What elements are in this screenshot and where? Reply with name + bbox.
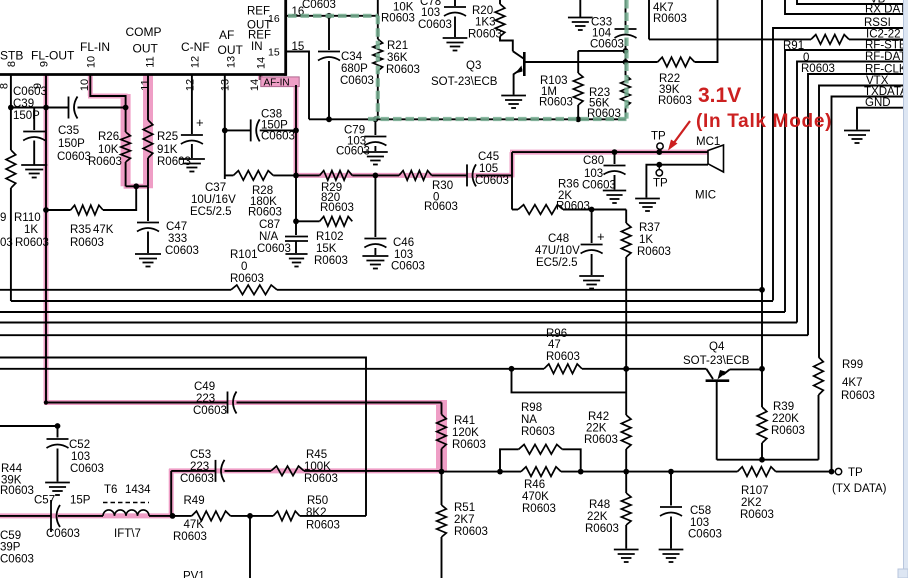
svg-text:R25: R25 [157,131,178,143]
svg-text:R36: R36 [558,179,579,191]
ground GND net [844,130,870,132]
wire VB line [797,0,908,4]
resistor R37 [625,210,627,224]
svg-text:Q4: Q4 [709,341,725,353]
resistor R36 [518,205,563,215]
resistor R39 [757,407,767,443]
svg-text:9: 9 [39,61,51,67]
svg-text:RX DATA: RX DATA [865,4,908,16]
resistor R42 [625,369,627,415]
resistor R46 [521,467,561,477]
capacitor C57 [50,500,52,532]
wire pin9 column [45,75,47,403]
svg-text:680P: 680P [341,63,368,75]
svg-text:C53: C53 [190,449,211,461]
capacitor C35 [68,97,70,119]
svg-text:N/A: N/A [259,231,279,243]
svg-text:RSSI: RSSI [864,17,891,29]
resistor R20 [499,0,501,4]
svg-text:10K: 10K [98,144,119,156]
svg-text:12: 12 [190,56,202,68]
svg-text:120K: 120K [452,427,479,439]
svg-text:C0603: C0603 [340,75,374,87]
capacitor C58 [670,472,672,506]
svg-text:4K7: 4K7 [842,377,862,389]
svg-text:R98: R98 [521,402,542,414]
green dashed box left edge [376,16,380,119]
svg-text:8K2: 8K2 [306,507,326,519]
svg-text:FL-IN: FL-IN [80,40,110,54]
svg-text:C0603: C0603 [688,529,722,541]
resistor R30 [399,171,432,181]
wire C33 to R103 [578,50,625,52]
svg-text:47: 47 [548,339,561,351]
svg-text:220K: 220K [772,413,799,425]
svg-text:+: + [196,115,204,130]
wire R39 U-wire [717,459,819,461]
highlight trace corner x512 [510,152,515,177]
svg-text:R0603: R0603 [248,207,282,219]
svg-text:R0603: R0603 [314,255,348,267]
svg-text:103: 103 [71,451,90,463]
highlight trace C57/T6 line [0,513,173,518]
svg-text:R35: R35 [70,224,91,236]
svg-text:C47: C47 [166,221,187,233]
svg-text:9: 9 [0,212,6,224]
highlight trace C49 line [44,400,444,405]
svg-text:R0603: R0603 [521,426,555,438]
svg-text:C0603: C0603 [70,463,104,475]
svg-text:C49: C49 [194,381,215,393]
wire C53 R45 line [171,470,215,472]
resistor R41 [437,414,447,448]
svg-text:100K: 100K [304,461,331,473]
svg-text:REF: REF [248,30,271,42]
svg-text:14: 14 [249,79,261,91]
svg-text:SOT-23\ECB: SOT-23\ECB [683,355,750,367]
capacitor C49 [227,392,229,414]
resistor R29 [296,174,320,176]
highlight trace AF-OUT line [294,173,513,178]
resistor R51 [441,472,443,505]
svg-text:36K: 36K [387,52,408,64]
svg-text:C34: C34 [341,51,363,63]
testpoint TP1 [657,143,663,149]
svg-text:MC1: MC1 [696,136,720,148]
svg-text:R0603: R0603 [88,156,122,168]
highlight trace MIC line [510,150,708,155]
svg-text:R99: R99 [842,359,863,371]
resistor R22 [658,57,695,67]
ground C47 [135,253,161,255]
wire pin14 stub [259,75,261,81]
svg-text:SOT-23\ECB: SOT-23\ECB [431,76,498,88]
svg-text:EC5/2.5: EC5/2.5 [536,257,578,269]
highlight trace pin11 column [143,75,153,189]
capacitor C78 [454,0,456,6]
svg-text:GND: GND [865,97,891,109]
ground C37 [179,158,205,160]
wire bus line7 Q4 base net [0,368,544,370]
highlight trace pin9/FL-OUT column [44,75,49,404]
svg-text:C0603: C0603 [180,473,214,485]
svg-text:REF: REF [247,6,270,18]
highlight trace AF-IN column [294,85,299,175]
svg-text:39P: 39P [0,542,21,554]
svg-text:FL-OUT: FL-OUT [31,49,75,63]
svg-text:R50: R50 [307,495,328,507]
highlight trace R26-R25 bottom [124,184,148,189]
svg-text:R110: R110 [14,212,41,224]
resistor R49 [192,511,231,521]
resistor R48 [625,472,627,493]
svg-text:R46: R46 [524,479,545,491]
svg-text:C87: C87 [259,219,280,231]
resistor R102 [296,220,320,222]
svg-text:OUT: OUT [218,43,244,57]
ground C39 [21,164,47,166]
svg-text:223: 223 [196,393,215,405]
resistor R25 [143,120,153,158]
svg-text:103: 103 [690,517,709,529]
svg-text:R26: R26 [98,131,119,143]
svg-text:2K2: 2K2 [741,497,761,509]
resistor R99 [814,357,824,395]
svg-text:C59: C59 [0,530,21,542]
window edge strip [904,0,908,578]
svg-text:150P: 150P [58,138,85,150]
svg-text:R0603: R0603 [304,473,338,485]
ground MIC lower [635,198,660,200]
highlight trace R41 column [436,400,447,472]
svg-text:15P: 15P [70,495,91,507]
svg-text:EC5/2.5: EC5/2.5 [190,206,232,218]
svg-text:C45: C45 [478,151,499,163]
svg-text:223: 223 [190,461,209,473]
svg-text:12: 12 [185,79,197,91]
svg-text:22K: 22K [587,511,608,523]
svg-text:+: + [597,229,605,244]
capacitor C47 [147,186,149,221]
svg-text:105: 105 [479,163,498,175]
svg-text:R0603: R0603 [306,520,340,532]
svg-text:C0603: C0603 [302,0,336,11]
svg-text:R101: R101 [230,249,258,261]
svg-text:R0603: R0603 [454,526,488,538]
inductor T6 IFT [103,510,149,516]
svg-text:1K: 1K [639,234,653,246]
svg-text:C52: C52 [69,439,90,451]
wire bus line2 pin8-RSSI [11,300,773,302]
wire T6 to R49 [149,515,192,517]
wire R36 left [512,209,518,211]
IC edge bottom [0,73,286,76]
wire x250 vertical to bottom [249,516,251,578]
svg-text:C0603: C0603 [590,39,624,51]
microphone MC1 [708,145,724,172]
wire bus line3 RF-STB [0,311,785,313]
svg-text:R42: R42 [588,411,609,423]
svg-text:R0603: R0603 [637,246,671,258]
wire bus line6 to R50 [0,358,366,516]
svg-text:R0603: R0603 [841,390,875,402]
svg-text:R107: R107 [741,485,769,497]
svg-text:11: 11 [145,56,157,67]
resistor R23 [625,51,627,75]
svg-text:R41: R41 [454,415,475,427]
capacitor C46 [374,175,376,237]
svg-text:R0603: R0603 [173,531,207,543]
svg-text:R0603: R0603 [658,95,692,107]
svg-text:47K: 47K [184,519,205,531]
wire pin13 column [224,75,226,180]
wire C49 line [46,402,228,404]
wire GND corner [857,108,908,130]
svg-text:R20: R20 [472,5,493,17]
net label AF-IN [261,77,299,87]
svg-text:R0603: R0603 [320,202,354,214]
wire bus line4 RF-DATA [0,322,797,324]
capacitor C33 [625,0,627,28]
capacitor C87 [285,236,308,238]
wire pin10 path [90,75,125,133]
svg-text:TP: TP [653,178,668,190]
svg-text:C0603: C0603 [165,245,199,257]
svg-text:T6: T6 [104,484,117,496]
node R29/R30/C46 [373,173,379,179]
capacitor C80 [614,152,616,164]
svg-text:IN: IN [251,41,263,53]
svg-text:150P: 150P [13,110,40,122]
capacitor C79 [374,119,376,135]
svg-text:C57: C57 [34,495,55,507]
svg-text:C0603: C0603 [0,554,34,566]
wire pin16 line [286,15,378,17]
capacitor C48 electrolytic [591,210,593,244]
transistor Q3 [500,36,513,51]
ground C78 [443,37,468,39]
resistor R98 parallel branch [500,449,519,471]
svg-text:8: 8 [6,61,18,67]
svg-text:8: 8 [0,83,11,89]
svg-text:(In Talk Mode): (In Talk Mode) [696,111,832,132]
wire RF-DATA corner [797,62,908,323]
svg-text:C0603: C0603 [13,86,47,98]
svg-text:R0603: R0603 [424,201,458,213]
wire C52 node [0,425,58,427]
svg-text:C80: C80 [583,155,604,167]
svg-text:R0603: R0603 [70,237,104,249]
svg-text:15K: 15K [316,243,337,255]
resistor R45 [271,466,304,476]
svg-text:AF: AF [219,28,234,42]
wire MIC line [512,151,708,153]
svg-text:R0603: R0603 [452,439,486,451]
green dashed box segment on pin16 line [288,14,378,18]
wire corner x512 [511,152,513,209]
svg-text:91K: 91K [157,144,178,156]
wire C79 node line [309,118,626,120]
wire R19 stub [377,0,379,16]
svg-text:C-NF: C-NF [181,40,210,54]
svg-text:R0603: R0603 [740,509,774,521]
svg-text:R102: R102 [316,231,344,243]
capacitor C39 [33,108,35,131]
red arrow [673,121,690,144]
svg-text:15: 15 [268,47,280,59]
svg-text:C48: C48 [548,233,569,245]
svg-text:R0603: R0603 [546,351,580,363]
capacitor C53 [215,460,217,482]
ground R48 [614,549,639,551]
svg-text:R48: R48 [589,499,610,511]
wire pin12 column [191,75,193,135]
svg-text:0: 0 [241,261,247,273]
svg-text:C0603: C0603 [193,405,227,417]
wire 4K7 box stub [648,0,650,39]
svg-text:R51: R51 [454,502,475,514]
svg-text:03: 03 [0,237,13,249]
resistor R101 [231,285,277,295]
svg-text:103: 103 [584,168,603,180]
svg-text:R0603: R0603 [157,156,191,168]
wire R26-R25 bottom node [126,185,148,187]
green dashed box right edge [624,0,628,119]
svg-text:103: 103 [421,7,440,19]
wire VTX corner [819,86,908,358]
svg-text:R0603: R0603 [230,273,264,285]
IC edge right [284,0,287,76]
svg-text:AF-IN: AF-IN [264,77,290,88]
resistor R103 [577,51,579,73]
svg-text:47U/10V: 47U/10V [535,245,580,257]
svg-text:R0603: R0603 [771,425,805,437]
svg-text:2K7: 2K7 [454,514,474,526]
svg-text:(TX DATA): (TX DATA) [832,483,887,495]
svg-text:C0603: C0603 [582,180,616,192]
svg-text:R21: R21 [387,40,408,52]
svg-text:R44: R44 [1,463,23,475]
ground C48 [579,275,604,277]
svg-text:R0603: R0603 [584,434,618,446]
svg-text:1K: 1K [24,224,38,236]
wire long vertical x762 [761,0,763,407]
ground C46 [362,255,388,257]
svg-text:10: 10 [86,56,98,68]
svg-text:14: 14 [256,57,268,69]
wire pin8 column [10,75,12,108]
svg-text:RF-STB: RF-STB [865,40,907,52]
resistor R28 [225,174,234,176]
resistor R110 [10,108,12,151]
svg-text:R0603: R0603 [653,13,687,25]
ground C80 [603,190,626,192]
wire R41 column [441,403,443,415]
resistor R50 [273,511,300,521]
svg-text:C0603: C0603 [46,528,80,540]
highlight trace pin14 stub [258,75,263,81]
green dashed box bottom edge [368,117,628,121]
wire RF-STB corner [785,50,908,312]
svg-text:PV1: PV1 [183,571,205,578]
svg-text:11: 11 [140,79,152,90]
svg-text:13: 13 [226,56,238,68]
resistor R35 [71,205,103,215]
svg-text:10: 10 [79,79,91,91]
ground C58 [659,549,684,551]
wire main TP line [442,471,522,473]
svg-text:C0603: C0603 [57,151,91,163]
svg-text:R0603: R0603 [556,201,590,213]
ground C52 [45,482,70,484]
svg-text:STB: STB [0,49,23,63]
svg-text:RF-DATA: RF-DATA [865,51,908,63]
svg-text:16: 16 [268,13,280,25]
svg-text:C37: C37 [205,182,226,194]
wire R42 branch [512,369,627,393]
svg-text:C46: C46 [393,237,414,249]
ground Q3 emitter [501,95,526,97]
resistor R96 [544,364,582,374]
resistor R21 [377,16,379,39]
wire R35 node [46,209,71,211]
resistor R107 [737,467,775,477]
svg-text:OUT: OUT [133,42,159,56]
svg-text:C0603: C0603 [261,131,295,143]
testpoint TP2 [658,165,660,170]
svg-text:R0603: R0603 [0,485,34,497]
svg-text:C0603: C0603 [336,146,370,158]
svg-text:C0603: C0603 [257,243,291,255]
svg-text:R49: R49 [184,495,205,507]
svg-text:R30: R30 [432,180,453,192]
svg-text:R0603: R0603 [381,13,415,25]
capacitor C52 [57,426,59,438]
wire IC2-22 line [649,38,811,40]
svg-text:C0603: C0603 [475,175,509,187]
wire C35 node [11,107,69,109]
highlight trace corner x171 [169,469,174,516]
svg-text:1434: 1434 [125,484,151,496]
svg-text:C0603: C0603 [391,261,425,273]
svg-text:47K: 47K [93,224,114,236]
svg-text:R45: R45 [306,449,327,461]
wire bus line1 R101 net [0,289,231,291]
svg-text:MIC: MIC [695,190,716,202]
svg-text:R0603: R0603 [15,237,49,249]
wire AF-IN column [295,85,297,175]
wire RF-CLK corner [808,74,908,335]
svg-text:10U/16V: 10U/16V [191,194,236,206]
wire RX DATA line [785,0,908,14]
svg-text:470K: 470K [522,491,549,503]
svg-text:22K: 22K [586,423,607,435]
svg-text:333: 333 [168,233,187,245]
svg-text:R0603: R0603 [585,523,619,535]
svg-text:IFT\7: IFT\7 [114,528,141,540]
wire pink riser x171 [170,471,172,516]
svg-text:TP: TP [651,131,666,143]
svg-text:R0603: R0603 [587,108,621,120]
wire T6 line left [0,515,51,517]
wire bus line5 RF-CLK [0,334,808,336]
ground top clipped [579,0,581,17]
svg-text:RF-CLK: RF-CLK [865,64,907,76]
highlight trace pin10 column [88,75,93,97]
svg-text:COMP: COMP [126,25,162,39]
svg-text:R0603: R0603 [539,97,573,109]
wire pin11 column [147,75,149,121]
